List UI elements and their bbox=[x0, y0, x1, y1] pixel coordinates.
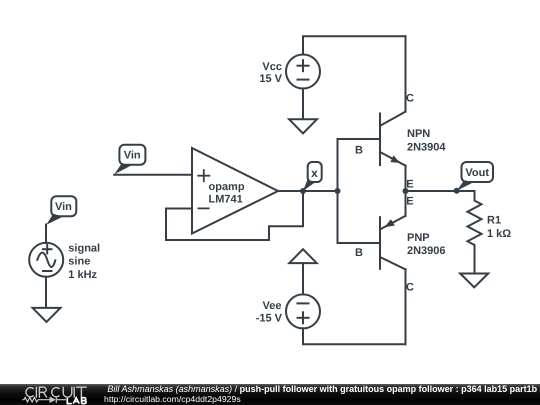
wire op-amp + input bbox=[114, 174, 192, 176]
wire bases vertical bbox=[337, 139, 339, 243]
svg-text:signal: signal bbox=[68, 243, 100, 255]
footer bar bbox=[0, 384, 540, 405]
CircuitLab logo bbox=[0, 384, 100, 405]
flag Vout (net label) bbox=[457, 162, 493, 191]
node x junction dot bbox=[300, 188, 306, 194]
svg-text:Vee: Vee bbox=[263, 300, 282, 312]
svg-text:Vout: Vout bbox=[465, 167, 489, 179]
svg-text:Vin: Vin bbox=[55, 201, 72, 213]
wire Vcc to NPN collector bbox=[303, 36, 406, 54]
wire op-amp output bbox=[278, 190, 338, 192]
labels Q2: B C E PNP 2N3906 bbox=[355, 196, 446, 294]
svg-text:15 V: 15 V bbox=[259, 73, 282, 85]
svg-text:B: B bbox=[355, 144, 363, 156]
label V2: Vcc 15 V bbox=[259, 61, 282, 85]
ground (above V3) bbox=[289, 249, 316, 263]
svg-text:E: E bbox=[406, 178, 413, 190]
svg-text:PNP: PNP bbox=[407, 232, 430, 244]
svg-text:x: x bbox=[311, 166, 318, 180]
voltage source V3 (Vee -15 V) bbox=[286, 294, 320, 328]
svg-text:C: C bbox=[406, 282, 414, 294]
wire ground to Vee top bbox=[302, 263, 304, 294]
footer credit line bbox=[107, 385, 537, 394]
svg-text:2N3906: 2N3906 bbox=[407, 245, 446, 257]
label V1: signal sine 1 kHz bbox=[68, 243, 100, 281]
svg-text:NPN: NPN bbox=[407, 128, 430, 140]
transistor Q2 PNP 2N3906 bbox=[338, 191, 406, 344]
svg-text:C: C bbox=[406, 92, 414, 104]
wire Vcc bottom terminal bbox=[302, 88, 304, 119]
flag Vin (net label at source V1) bbox=[46, 196, 76, 225]
voltage source V1 (signal sine 1 kHz) bbox=[29, 243, 63, 277]
svg-text:-15 V: -15 V bbox=[256, 312, 283, 324]
svg-text:Vcc: Vcc bbox=[262, 61, 282, 73]
svg-text:E: E bbox=[406, 196, 413, 208]
label R1: 1 kOhm bbox=[487, 215, 511, 241]
voltage source V2 (Vcc 15 V) bbox=[286, 55, 320, 89]
ground (below R1) bbox=[460, 274, 488, 288]
resistor R1 (1 kOhm) bbox=[468, 191, 482, 274]
op-amp U1 (LM741) bbox=[192, 148, 278, 234]
wire V1 top terminal bbox=[45, 225, 47, 244]
labels Q1: B C E NPN 2N3904 bbox=[355, 92, 446, 190]
label U1: opamp LM741 bbox=[209, 181, 245, 205]
wire V1 bottom terminal bbox=[45, 277, 47, 308]
wire emitters to R1 bbox=[406, 190, 475, 192]
svg-text:R1: R1 bbox=[487, 215, 501, 227]
svg-text:sine: sine bbox=[68, 255, 90, 267]
svg-text:Vin: Vin bbox=[124, 150, 141, 162]
flag x (net label) bbox=[303, 162, 322, 191]
node Vout junction dot bbox=[454, 188, 460, 194]
label V3: Vee -15 V bbox=[256, 300, 283, 324]
transistor Q1 NPN 2N3904 bbox=[338, 36, 406, 191]
ground (below V2) bbox=[289, 119, 317, 133]
svg-text:2N3904: 2N3904 bbox=[407, 141, 446, 153]
svg-text:1 kHz: 1 kHz bbox=[68, 269, 97, 281]
flag Vin (net label at op-amp + input) bbox=[114, 145, 145, 175]
footer url line bbox=[104, 395, 241, 404]
svg-text:1 kΩ: 1 kΩ bbox=[487, 228, 511, 240]
svg-text:B: B bbox=[355, 247, 363, 259]
node emitter junction dot bbox=[403, 188, 409, 194]
ground (below V1) bbox=[33, 308, 61, 322]
svg-text:LM741: LM741 bbox=[209, 193, 243, 205]
wire feedback (output to - input) bbox=[166, 191, 303, 240]
svg-text:opamp: opamp bbox=[209, 181, 245, 193]
node base junction dot bbox=[335, 188, 341, 194]
wire Vee to PNP collector bbox=[303, 269, 406, 344]
